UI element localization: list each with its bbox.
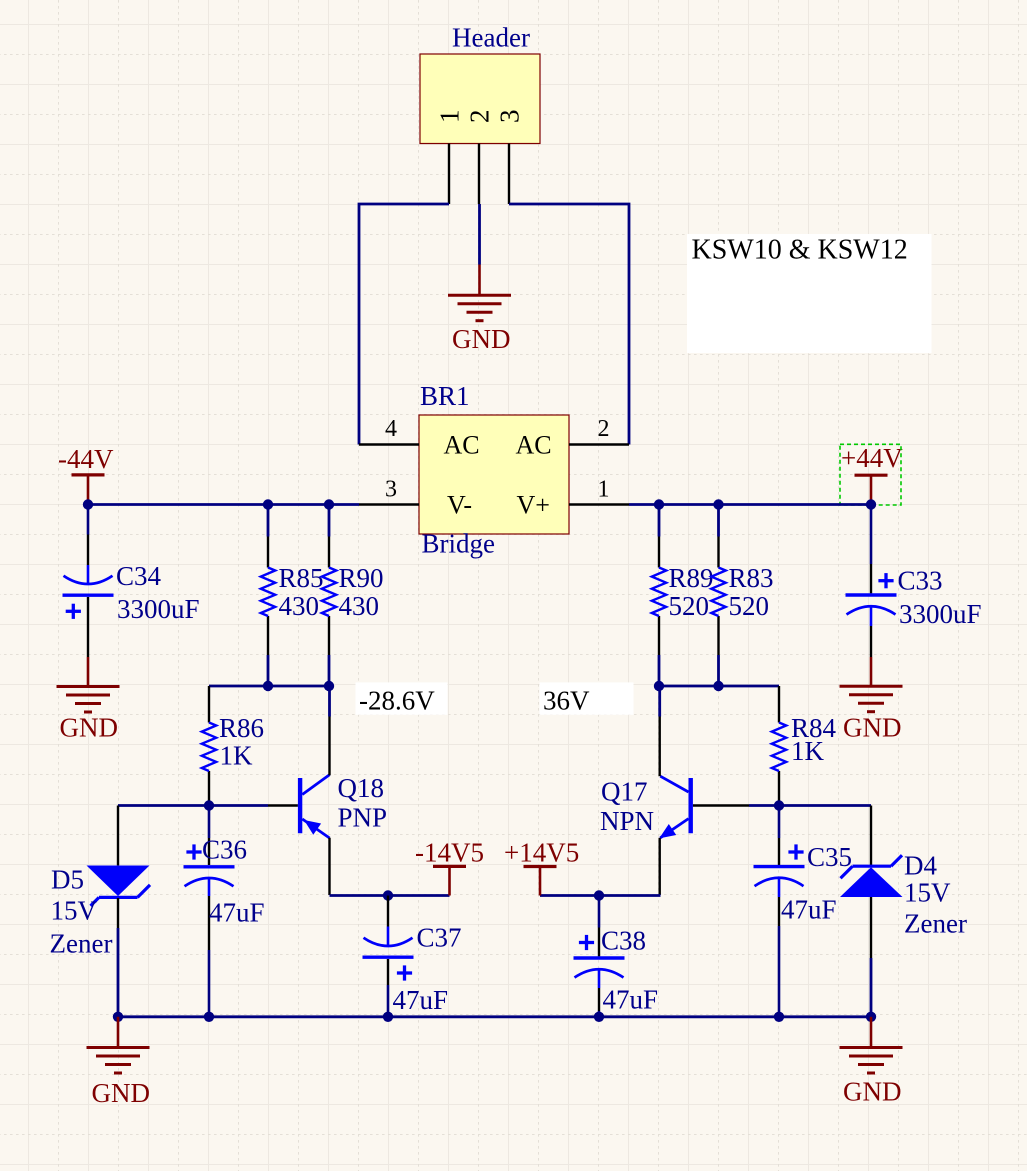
junction C38 bottom [594,1012,604,1022]
selection box around +44V [840,444,901,505]
svg-text:V+: V+ [517,491,550,520]
label 1K (R84 value) [791,736,825,766]
junction R85 bottom [263,681,273,691]
svg-text:+14V5: +14V5 [504,838,579,868]
junction +44V/C33 [866,499,876,509]
svg-text:1: 1 [435,110,465,124]
label 430 (R90 value) [339,591,380,621]
pin 1 of BR1 (V+) [569,477,629,505]
svg-text:Zener: Zener [50,929,113,959]
label R86 (designator) [219,713,264,743]
wire bottom ground rail [118,1015,871,1018]
label GND (bottom left) [92,1078,151,1108]
label C37 (designator) [417,923,462,953]
svg-text:15V: 15V [51,896,98,926]
svg-text:R90: R90 [339,563,384,593]
resistor R89 [652,505,666,687]
junction R83 top [713,499,723,509]
label R89 (designator) [669,563,714,593]
svg-text:D5: D5 [51,865,84,895]
junction R90 top [324,499,334,509]
svg-text:C33: C33 [898,566,943,596]
capacitor C38 [574,896,625,1017]
svg-text:GND: GND [843,1077,902,1107]
svg-text:-14V5: -14V5 [415,838,484,868]
ground GND (below C34) [57,657,120,712]
svg-text:NPN: NPN [600,806,654,836]
label D5 (designator) [51,865,84,895]
svg-text:+44V: +44V [841,443,903,473]
svg-text:520: 520 [729,591,770,621]
label 520 (R89 value) [669,591,710,621]
wire header pin1 to BR1 pin4 [359,204,449,445]
voltage annotation -28.6V [356,682,448,715]
label C35 (designator) [807,842,852,872]
svg-text:1K: 1K [791,736,825,766]
svg-text:2: 2 [465,110,495,124]
wire left base rail (R85/R90 bottoms to R86) [209,685,329,688]
svg-text:C37: C37 [417,923,462,953]
resistor R85 [261,505,275,687]
pin 1 of Header [435,110,465,205]
junction -44V/C34 [83,499,93,509]
label Q17 (designator) [601,777,648,807]
label C34 (designator) [116,561,162,591]
junction R89 top / BR1 pin1 [654,499,664,509]
label GND (left mid) [60,713,119,743]
wire Q17 base to D4 (right bias rail) [749,804,871,807]
label C36 (designator) [202,835,247,865]
ground GND (top, header pin 2) [448,265,511,321]
diode D5 (zener) [87,806,151,1017]
resistor R84 [772,686,786,806]
svg-text:GND: GND [843,713,902,743]
label 15V (D4 value) [904,878,951,908]
wire Q18 emitter to -14V5 [330,894,450,897]
svg-text:3300uF: 3300uF [899,599,982,629]
label GND (right mid) [843,713,902,743]
label D4 (designator) [904,851,937,881]
svg-text:R89: R89 [669,563,714,593]
svg-text:GND: GND [60,713,119,743]
svg-text:PNP: PNP [338,803,388,833]
bridge BR1 (body) [419,415,569,534]
label NPN (Q17 type) [600,806,654,836]
power port +14V5 [504,838,579,896]
junction D5 cathode / GND [113,1012,123,1022]
label Bridge (value) [422,529,496,559]
wire header pin2 to GND [478,204,481,265]
junction C37 bottom [383,1012,393,1022]
svg-text:GND: GND [92,1078,151,1108]
label 3300uF (C34 value) [117,594,200,624]
svg-text:36V: 36V [543,686,590,716]
label C33 (designator) [898,566,943,596]
junction C37 top [383,890,393,900]
capacitor C36 [184,806,235,1017]
wire -44V rail (V- net) [88,503,359,506]
junction R84 bottom / C35 top [774,800,784,810]
svg-text:KSW10 & KSW12: KSW10 & KSW12 [692,235,908,266]
svg-text:430: 430 [279,591,320,621]
svg-text:47uF: 47uF [209,898,265,928]
pin 3 of BR1 (V-) [359,477,419,505]
label C38 (designator) [601,926,646,956]
capacitor C37 [363,896,414,1017]
svg-text:15V: 15V [904,878,951,908]
svg-text:4: 4 [385,416,397,442]
pin name AC (left) [444,431,480,460]
label R90 (designator) [339,563,384,593]
junction C38 top [594,890,604,900]
svg-text:C34: C34 [116,561,162,591]
svg-text:R83: R83 [729,563,774,593]
resistor R83 [711,505,725,687]
resistor R86 [202,686,216,806]
wire +14V5 to Q17 emitter [540,894,661,897]
svg-text:Q18: Q18 [338,773,385,803]
svg-text:BR1: BR1 [420,381,470,411]
label GND (bottom right) [843,1077,902,1107]
power port +44V [841,443,903,505]
pin name V- [447,491,472,520]
svg-text:Q17: Q17 [601,777,648,807]
svg-text:C36: C36 [202,835,247,865]
svg-text:AC: AC [516,431,552,460]
svg-text:C38: C38 [601,926,646,956]
wire D5 to Q18 base (left bias rail) [118,804,268,807]
svg-text:D4: D4 [904,851,937,881]
label PNP (Q18 type) [338,803,388,833]
junction R86 bottom / C36 top [204,800,214,810]
capacitor C34 [63,505,114,658]
pin name AC (right) [516,431,552,460]
junction D4 / GND [866,1012,876,1022]
label Header (designator) [452,23,530,53]
junction C35 bottom [774,1012,784,1022]
svg-text:47uF: 47uF [781,895,837,925]
ground GND (below C33) [840,657,903,712]
label BR1 (designator) [420,381,470,411]
power port -44V [58,444,114,505]
label 47uF (C36 value) [209,898,265,928]
pin 3 of Header [495,110,525,205]
label R84 (designator) [791,713,837,743]
junction R90 bottom / Q18 collector [324,681,334,691]
diode D4 (zener) [840,806,903,1017]
wire right base rail (R89/R83 bottoms to R84) [659,685,779,688]
wire header pin3 to BR1 pin2 [509,204,629,445]
svg-text:47uF: 47uF [393,985,449,1015]
ground GND (bottom right) [840,1017,903,1073]
junction C36 bottom [204,1012,214,1022]
svg-text:GND: GND [452,324,511,354]
svg-text:R86: R86 [219,713,264,743]
junction R83 bottom [713,681,723,691]
resistor R90 [322,505,336,687]
svg-text:-28.6V: -28.6V [359,686,435,716]
transistor Q17 [659,686,749,895]
junction R89 bottom / Q17 collector [654,681,664,691]
svg-text:Bridge: Bridge [422,529,496,559]
label 1K (R86 value) [220,741,254,771]
transistor Q18 [268,686,330,895]
label Zener (D5 type) [50,929,113,959]
label 430 (R85 value) [279,591,320,621]
pin 2 of BR1 (AC right) [569,416,629,445]
svg-text:AC: AC [444,431,480,460]
svg-text:V-: V- [447,491,472,520]
label Zener (D4 type) [904,909,967,939]
label 47uF (C35 value) [781,895,837,925]
label GND (top) [452,324,511,354]
capacitor C35 [754,806,805,1017]
label R85 (designator) [279,563,324,593]
svg-text:430: 430 [339,591,380,621]
label Q18 (designator) [338,773,385,803]
svg-text:Zener: Zener [904,909,967,939]
power port -14V5 [415,838,484,896]
voltage annotation 36V [540,682,634,715]
pin 4 of BR1 (AC left) [359,416,419,445]
svg-text:47uF: 47uF [603,985,659,1015]
label 3300uF (C33 value) [899,599,982,629]
svg-text:R85: R85 [279,563,324,593]
junction R85 top [263,499,273,509]
svg-text:2: 2 [598,416,610,442]
label R83 (designator) [729,563,774,593]
capacitor C33 [846,505,897,658]
label 47uF (C38 value) [603,985,659,1015]
svg-text:520: 520 [669,591,710,621]
label 520 (R83 value) [729,591,770,621]
wire +44V rail (V+ net) [629,503,871,506]
svg-text:1K: 1K [220,741,254,771]
svg-text:C35: C35 [807,842,852,872]
connector Header (body) [420,54,540,144]
svg-text:-44V: -44V [58,444,114,474]
label 15V (D5 value) [51,896,98,926]
svg-text:3: 3 [495,110,525,124]
text note KSW10 & KSW12 [687,234,932,353]
pin name V+ [517,491,550,520]
label 47uF (C37 value) [393,985,449,1015]
svg-text:3300uF: 3300uF [117,594,200,624]
svg-text:3: 3 [385,477,397,503]
ground GND (bottom left) [87,1017,150,1073]
svg-text:Header: Header [452,23,530,53]
pin 2 of Header [465,110,495,205]
svg-text:1: 1 [598,477,610,503]
